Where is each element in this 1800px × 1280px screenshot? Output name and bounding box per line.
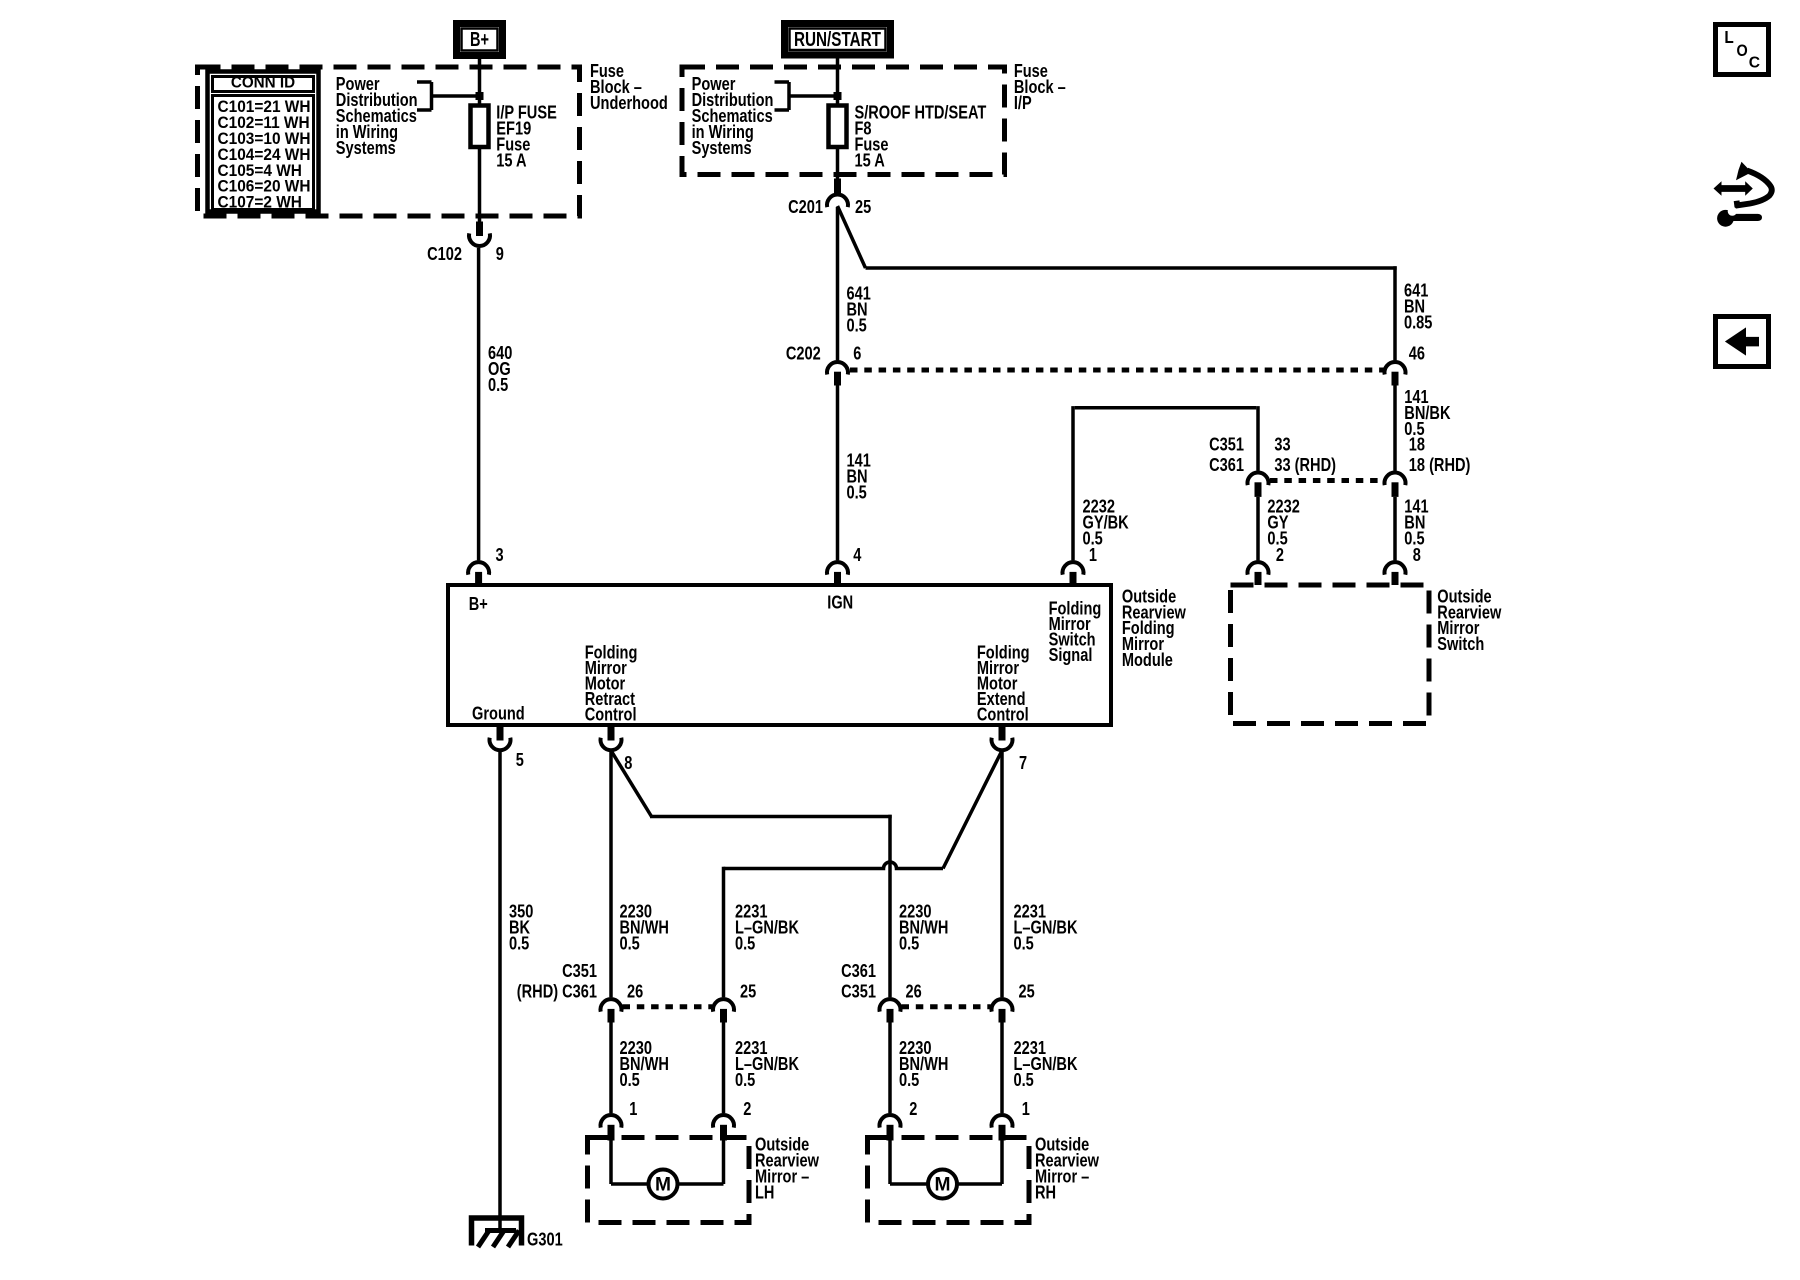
in-line link C202 dashed [850,368,1384,373]
Fuse Block - Underhood dashed box [198,67,580,216]
bracket from note to fuse wire (I/P) [775,82,838,110]
wire 2231 L-GN/BK pin7 straight down [1000,752,1004,997]
svg-text:B+: B+ [470,29,489,51]
svg-text:3: 3 [496,545,504,565]
svg-text:15 A: 15 A [496,150,526,170]
svg-text:B+: B+ [469,594,488,614]
connector C102 pin 9 [427,222,504,265]
svg-text:1: 1 [1089,545,1097,565]
wire 641 BN 0.5 C201 to C202 [838,207,871,360]
svg-text:C351: C351 [562,961,597,981]
connector C351/(RHD) C361 labels LH [517,961,597,1001]
svg-text:0.5: 0.5 [847,482,867,502]
svg-text:0.5: 0.5 [1014,933,1034,953]
svg-text:15 A: 15 A [855,150,885,170]
svg-text:Systems: Systems [336,138,396,158]
svg-text:0.5: 0.5 [735,1070,755,1090]
svg-text:9: 9 [496,244,504,264]
Fuse Block - I/P dashed box [682,67,1005,175]
svg-text:O: O [1737,41,1748,60]
svg-text:M: M [935,1175,951,1196]
wire 2230 BN/WH pin8 straight down [609,752,613,997]
wire 2231 L-GN/BK pin7 diagonal to LH branch with hop [724,751,1003,998]
svg-text:0.5: 0.5 [620,933,640,953]
in-line link C351/C361 dashed [1270,478,1384,483]
svg-text:25: 25 [740,982,756,1002]
module pin 4 connector [827,545,861,585]
wire RUN/START to fuse F8 [836,59,840,106]
svg-text:2: 2 [743,1099,751,1119]
svg-text:6: 6 [853,344,861,364]
wire 2232 GY 0.5 pin33 to switch pin 2 [1258,496,1300,560]
svg-text:M: M [655,1175,671,1196]
svg-text:(RHD) C361: (RHD) C361 [517,982,597,1002]
wire 141 BN 0.5 pin18 to switch pin 8 [1395,496,1429,560]
junction dot on RUN/START wire [834,92,842,100]
connector pin 26 (LH) [601,982,644,1023]
svg-text:G301: G301 [527,1230,563,1250]
switch pin 2 connector [1248,545,1285,585]
svg-text:RUN/START: RUN/START [794,29,881,51]
connector pin 46 [1385,344,1426,386]
LOC icon [1716,25,1769,75]
svg-text:2: 2 [1276,545,1284,565]
svg-text:0.5: 0.5 [1014,1070,1034,1090]
svg-text:0.5: 0.5 [509,933,529,953]
svg-text:0.5: 0.5 [899,933,919,953]
bracket from note to fuse wire [417,82,480,110]
svg-text:Ground: Ground [472,703,525,723]
svg-text:S/ROOF HTD/SEAT: S/ROOF HTD/SEAT [855,102,987,122]
LH mirror pin 1 connector [601,1099,638,1141]
Outside Rearview Mirror LH dashed box [588,1138,750,1223]
svg-text:1: 1 [1022,1099,1030,1119]
svg-text:0.85: 0.85 [1404,312,1432,332]
svg-text:26: 26 [627,982,643,1002]
in-line link dashed RH [902,1004,991,1009]
svg-text:C107=2 WH: C107=2 WH [218,193,302,212]
svg-text:Switch: Switch [1437,634,1484,654]
module pin 8 connector [601,725,633,773]
service adjust icon (arrows and wrench) [1714,162,1772,227]
svg-text:L: L [1724,27,1734,47]
svg-text:C351: C351 [841,982,876,1002]
svg-text:C361: C361 [1209,455,1244,475]
svg-text:CONN ID: CONN ID [231,74,295,91]
wire 2231 L-GN/BK to LH mirror pin 2 [724,1023,800,1114]
wire B+ to fuse EF19 [478,59,482,105]
wire fuse F8 to connector C201 [836,147,840,179]
connector pin 25 (LH) [713,982,756,1023]
wire 2230 BN/WH pin8 diagonal to RH branch [611,751,892,998]
svg-text:0.5: 0.5 [620,1070,640,1090]
svg-text:C202: C202 [786,344,821,364]
wire 141 BN 0.5 C202 to module pin 4 [838,386,871,561]
connector pin 26 (RH) [880,982,922,1023]
svg-text:Systems: Systems [692,138,752,158]
svg-text:Control: Control [585,705,637,725]
back arrow icon [1716,317,1769,367]
svg-text:8: 8 [624,753,632,773]
ground wire 350 BK 0.5 [500,752,533,1232]
Outside Rearview Mirror RH dashed box [868,1138,1030,1223]
svg-text:C351: C351 [1209,435,1244,455]
svg-text:5: 5 [516,750,524,770]
svg-text:18: 18 [1409,435,1425,455]
Outside Rearview Mirror Switch dashed box [1231,585,1430,724]
svg-text:Signal: Signal [1049,645,1093,665]
svg-text:1: 1 [629,1099,637,1119]
svg-text:33: 33 [1274,435,1290,455]
svg-text:C361: C361 [841,961,876,981]
svg-text:18 (RHD): 18 (RHD) [1409,455,1471,475]
wire fuse EF19 to connector C102 [478,147,482,222]
RH mirror pin 2 connector [880,1099,918,1141]
svg-text:IGN: IGN [827,593,853,613]
svg-text:0.5: 0.5 [899,1070,919,1090]
svg-text:33 (RHD): 33 (RHD) [1274,455,1336,475]
connector pin 18 [1385,435,1471,497]
svg-text:46: 46 [1409,344,1425,364]
svg-text:RH: RH [1035,1182,1056,1202]
connector C361/C351 labels RH [841,961,876,1001]
wire 141 BN/BK 0.5 pin46 to pin18 [1395,386,1451,471]
CONN ID table [208,72,319,212]
wire 640 OG to module pin 3 [479,248,513,561]
svg-text:25: 25 [1019,982,1035,1002]
svg-text:C102: C102 [427,244,462,264]
module pin 3 connector [468,545,504,585]
svg-text:LH: LH [755,1182,774,1202]
wire 2230 BN/WH to LH mirror pin 1 [611,1023,669,1114]
svg-text:Module: Module [1122,650,1173,670]
LH mirror pin 2 connector [713,1099,751,1141]
connector C351/C361 pin 33 [1209,435,1336,497]
in-line link dashed LH [623,1004,713,1009]
module pin 1 connector [1063,545,1098,585]
svg-text:Underhood: Underhood [590,93,668,113]
svg-text:26: 26 [906,982,922,1002]
RUN/START power feed box [785,24,891,56]
junction dot on B+ wire [476,92,484,100]
connector pin 25 (RH) [992,982,1035,1023]
RH mirror pin 1 connector [992,1099,1030,1141]
svg-text:0.5: 0.5 [488,375,508,395]
fuse F8 S/ROOF HTD/SEAT 15A [829,102,987,170]
wire 2230 BN/WH to RH mirror pin 2 [890,1023,948,1114]
module pin 7 connector [992,725,1028,773]
svg-text:C201: C201 [788,197,823,217]
fuse EF19 I/P FUSE 15A [471,102,557,170]
LH mirror motor M [611,1141,724,1199]
svg-text:8: 8 [1413,545,1421,565]
B+ power feed box [457,24,503,56]
ground G301 [472,1218,563,1250]
RH mirror motor M [890,1141,1002,1199]
wire 641 BN 0.85 C201 to pin 46 [838,206,1433,360]
svg-text:0.5: 0.5 [847,315,867,335]
svg-text:0.5: 0.5 [735,933,755,953]
svg-text:25: 25 [855,197,871,217]
switch pin 8 connector [1385,545,1421,585]
svg-text:7: 7 [1019,753,1027,773]
module pin 5 connector [490,725,524,770]
svg-text:2: 2 [909,1099,917,1119]
wire 2231 L-GN/BK to RH mirror pin 1 [1002,1023,1078,1114]
svg-text:4: 4 [853,545,861,565]
connector C201 pin 25 [788,179,871,218]
wire 2232 GY/BK 0.5 to module pin 1 [1073,406,1258,560]
Outside Rearview Folding Mirror Module box [448,585,1111,725]
svg-text:I/P: I/P [1014,93,1032,113]
svg-text:C: C [1749,54,1761,71]
svg-text:Control: Control [977,705,1029,725]
connector C202 pin 6 [786,344,862,386]
